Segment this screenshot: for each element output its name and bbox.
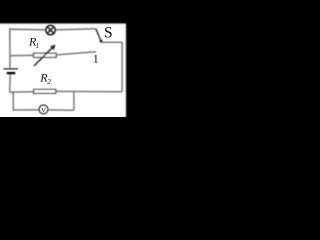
rheostat R1 box [34,53,57,57]
battery long plate [4,68,18,70]
black right band [126,0,144,120]
voltmeter branch bottom-left wire [14,109,40,111]
svg-text:V: V [41,107,46,114]
page background [0,0,141,117]
left wire lower (battery to bottom corner) [9,74,12,92]
battery short thick plate [7,72,16,74]
right wire down [121,42,123,91]
wire top-left to lamp [10,29,46,40]
voltmeter branch right riser [73,91,75,110]
wire lamp to switch [56,29,96,30]
voltmeter branch left drop [12,92,15,110]
lamp L [46,25,55,34]
black top band [0,0,144,24]
svg-text:1: 1 [93,51,99,65]
switch S blade [96,29,101,41]
voltmeter branch bottom-right wire [48,109,74,111]
wire switch to right corner [101,41,122,43]
middle wire right (rheostat to node 1) [56,52,96,55]
resistor R2 box [34,89,56,93]
middle wire left (to rheostat) [10,54,34,57]
voltmeter V [39,105,48,114]
svg-text:S: S [104,24,113,41]
bottom wire right of R2 [56,90,122,92]
switch contact dot [100,40,103,43]
rheostat arrow [34,45,55,66]
bottom wire left of R2 [10,91,34,93]
left wire upper (corner to battery) [9,29,11,68]
